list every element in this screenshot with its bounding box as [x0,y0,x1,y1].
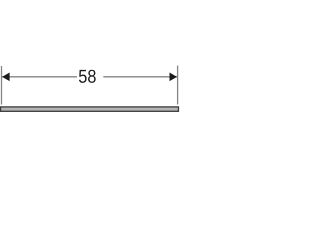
arrowhead right [170,73,178,82]
dimension line right segment [103,76,177,78]
extension line right [177,66,179,105]
dimension line left segment [2,76,77,78]
extension line left [1,66,3,105]
arrowhead left [2,73,10,82]
dimension text 58 [79,70,96,83]
panel bar [1,107,179,111]
